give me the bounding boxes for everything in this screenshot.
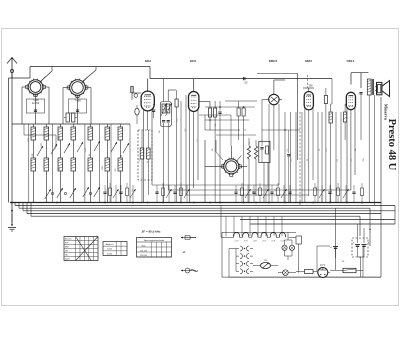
- wire bus 6: [31, 215, 360, 217]
- resistor: [241, 183, 244, 203]
- label CY1: [320, 263, 326, 267]
- trimmer arrow: [319, 185, 325, 203]
- junction: [243, 202, 245, 204]
- coil L6a: [105, 127, 110, 140]
- coil L5b: [88, 158, 93, 171]
- svg-text:12-702: 12-702: [32, 102, 40, 105]
- tube type label CBL1: [346, 59, 354, 63]
- wire bus 7: [240, 219, 395, 221]
- electrolytic block: [352, 224, 370, 277]
- svg-text:EK2: EK2: [145, 59, 151, 63]
- wire T3 pins: [269, 104, 279, 203]
- wire bank mid rail 2: [55, 135, 57, 147]
- ground symbol: [8, 203, 16, 232]
- wire drop: [249, 216, 251, 236]
- label gang2: [74, 100, 81, 103]
- svg-text:x: x: [231, 153, 233, 154]
- wire T4 pins: [305, 108, 313, 203]
- dial lamp 1: [282, 240, 287, 256]
- trimmer arrow gang 3: [236, 156, 242, 162]
- capacitor: [288, 185, 291, 203]
- wire vertical: [301, 112, 303, 203]
- coil L7a: [118, 127, 123, 140]
- wire coil bank bus: [12, 123, 130, 125]
- capacitor on top rail: [244, 77, 248, 85]
- wire T1 top: [147, 79, 149, 92]
- wire bus right fan: [360, 206, 395, 247]
- wire osc leads: [142, 130, 148, 203]
- junction: [180, 202, 182, 204]
- svg-text:CBL1: CBL1: [346, 59, 354, 63]
- trimmer arrow: [166, 185, 172, 203]
- wire bank vertical: [129, 124, 131, 203]
- wire transformer down: [368, 95, 370, 203]
- svg-text:EBC3: EBC3: [269, 59, 278, 63]
- wire top rail left: [30, 66, 150, 68]
- detector cap: [260, 141, 263, 162]
- wire top rail mid: [150, 78, 332, 80]
- capacitor: [234, 185, 237, 203]
- label selector: [264, 260, 268, 262]
- label alt: [183, 251, 186, 254]
- wire right column: [380, 97, 382, 277]
- coil T4: [329, 104, 332, 203]
- coil L6b: [105, 158, 110, 171]
- trimmer arrow: [130, 185, 136, 203]
- resistor: [259, 183, 262, 203]
- wire dashed screen line: [299, 112, 301, 205]
- trimmer arrow gang 1: [40, 77, 46, 84]
- junction: [104, 202, 106, 204]
- wire long mid 2: [168, 189, 351, 191]
- wire lamps top: [285, 232, 293, 260]
- svg-text:6M: 6M: [265, 150, 267, 153]
- switch contact arrow: [94, 141, 100, 151]
- label above T4: [309, 85, 314, 88]
- trimmer arrow: [281, 185, 287, 203]
- wire drum1 loop: [27, 99, 45, 113]
- electrolytic cap 1: [330, 245, 338, 258]
- wire psu top link: [222, 231, 296, 233]
- capacitor detector 2: [287, 130, 290, 203]
- wire coil col 2: [45, 124, 47, 203]
- tuning drum gang 1: [26, 78, 46, 96]
- heater tap label: [281, 241, 285, 243]
- resistor T4 right: [324, 88, 327, 203]
- tube T5 CBL1: [346, 92, 355, 109]
- value labels: [28, 118, 365, 194]
- wire rail right drop: [331, 79, 332, 104]
- svg-text:1M: 1M: [355, 148, 357, 151]
- ground link alt: [181, 268, 198, 273]
- switch contact arrow: [64, 143, 70, 153]
- trimmer arrow: [113, 185, 119, 203]
- wire mid verticals: [181, 95, 186, 203]
- trimmer pair mid: [237, 101, 245, 203]
- wire bank mid rail: [24, 124, 56, 135]
- wire lamp3 leads: [278, 272, 296, 274]
- svg-text:1M: 1M: [212, 148, 214, 151]
- junction: [312, 202, 314, 204]
- resistor T2 anode: [208, 108, 211, 130]
- dial lamp 2: [289, 240, 294, 256]
- wire bus 3: [19, 207, 370, 209]
- wire right column 2: [374, 95, 376, 206]
- svg-text:1M: 1M: [159, 130, 161, 133]
- wire chassis bus main: [10, 202, 381, 204]
- wire selector left: [229, 249, 236, 278]
- brand text Minerva: [384, 104, 389, 121]
- heater tap label: [253, 241, 257, 243]
- trimmer arrow bank: [83, 187, 89, 197]
- trimmer arrow bank: [70, 188, 76, 198]
- capacitor: [155, 185, 158, 203]
- wire psu bottom: [229, 276, 381, 278]
- oscillator coil can: [138, 130, 152, 180]
- wire long mid 1: [152, 184, 279, 186]
- heater tap label: [271, 241, 275, 243]
- resistor: [337, 183, 340, 203]
- wire T3 grid: [262, 100, 266, 142]
- wire drop: [225, 216, 227, 236]
- wire coil col 5: [89, 124, 91, 203]
- wire long mid 3: [186, 194, 309, 196]
- IF1 coil secondary: [167, 104, 170, 113]
- svg-text:MW: MW: [65, 247, 69, 249]
- wire gang2 leads: [63, 88, 91, 125]
- wire vertical: [290, 112, 292, 203]
- oscillator trimmer pair: [64, 113, 77, 122]
- coil L4a: [71, 127, 76, 140]
- switch contact arrow: [51, 144, 57, 154]
- wire T3 top: [274, 80, 285, 92]
- trimmer arrow: [245, 185, 251, 203]
- wire rail shield top: [257, 74, 298, 161]
- coil L3a: [58, 127, 63, 140]
- capacitor: [252, 185, 255, 203]
- svg-text:220-240: 220-240: [140, 255, 147, 257]
- wire mid link c: [205, 119, 249, 121]
- wire gang1 top lead: [41, 67, 53, 82]
- label gang1: [32, 99, 40, 105]
- wire T5 pins: [347, 108, 355, 203]
- cathode resistor T1: [135, 105, 139, 124]
- wire coil col 3: [59, 124, 61, 203]
- switch contact arrow: [123, 143, 129, 153]
- capacitor: [173, 185, 176, 203]
- svg-text:Netz: Netz: [142, 245, 146, 248]
- svg-text:alt: alt: [369, 228, 372, 231]
- table voltages: [137, 238, 172, 258]
- wire bank vertical: [84, 124, 86, 203]
- svg-text:JF = 95,5 kHz: JF = 95,5 kHz: [142, 230, 161, 234]
- wire T2 top: [193, 79, 195, 92]
- voltage selector: [236, 246, 253, 274]
- wire drum2 loop: [69, 99, 87, 113]
- tube type label EBC3: [269, 59, 278, 63]
- wire bank vertical: [110, 124, 112, 203]
- resistor zigzag 1: [247, 138, 250, 203]
- resistor: [361, 183, 364, 203]
- trimmer arrow bank: [57, 188, 63, 198]
- IF transformer 1 can: [160, 102, 171, 127]
- antenna link alt: [181, 236, 196, 239]
- coil L2b: [44, 158, 49, 171]
- wire vertical: [340, 112, 342, 203]
- wire mid link a: [205, 106, 255, 108]
- capacitor T2: [218, 101, 221, 203]
- trimmer arrow bank: [45, 189, 51, 199]
- switch contact arrow: [37, 146, 43, 156]
- wire bus 4: [23, 210, 395, 212]
- junction: [219, 202, 221, 204]
- wire coil col 6: [106, 124, 108, 203]
- svg-text:CY1: CY1: [320, 263, 326, 267]
- resistor R mid: [175, 90, 178, 203]
- wire T2 out: [199, 102, 210, 109]
- svg-text:Presto 48 U: Presto 48 U: [386, 119, 397, 171]
- capacitor output: [359, 93, 362, 141]
- resistor psu hatched: [330, 268, 363, 272]
- wire T1 pins: [144, 110, 153, 202]
- junction: [209, 202, 211, 204]
- pilot lamp 3: [283, 270, 289, 276]
- resistor zigzag 2: [254, 140, 257, 196]
- osc coil b: [147, 148, 151, 159]
- wire bus 5: [27, 213, 381, 215]
- coil L7b: [118, 158, 123, 171]
- svg-text:110-130: 110-130: [140, 251, 147, 253]
- svg-text:KW: KW: [65, 243, 68, 245]
- wire T4 top: [303, 88, 314, 92]
- svg-text:Abgleich: Abgleich: [106, 243, 114, 246]
- junction: [299, 202, 301, 204]
- resistor: [162, 183, 165, 203]
- tube T3 EBC3: [266, 92, 282, 107]
- wire IF1 top: [164, 79, 176, 102]
- heater tap label: [235, 241, 239, 243]
- table wave ranges: [64, 237, 98, 261]
- junction: [284, 202, 286, 204]
- label IF frequency: [142, 230, 161, 234]
- trimmer arrow: [263, 185, 269, 203]
- wire antenna horizontal: [9, 67, 31, 79]
- svg-text:+: +: [330, 245, 332, 249]
- wire rail step: [149, 67, 151, 79]
- svg-text:209: 209: [309, 85, 314, 88]
- svg-text:Sperr: Sperr: [65, 259, 70, 261]
- trimmer arrow: [343, 185, 349, 203]
- wire vertical: [295, 112, 297, 203]
- wire psu right verticals: [336, 208, 364, 277]
- svg-text:alt: alt: [183, 251, 186, 254]
- junction: [346, 202, 348, 204]
- speaker: [375, 81, 390, 97]
- grid resistor T1: [131, 87, 138, 98]
- wire drop: [265, 216, 267, 236]
- junction: [56, 202, 58, 204]
- wire mid link e: [216, 134, 256, 136]
- model title Presto 48 U: [386, 119, 397, 171]
- wire drop: [281, 216, 283, 236]
- capacitor: [270, 185, 273, 203]
- tube T4 EM4: [304, 92, 313, 110]
- wire IF1 down: [164, 123, 169, 203]
- wire mid link d: [262, 129, 300, 131]
- wire T1 grid: [132, 86, 141, 100]
- switch contact arrow: [77, 142, 83, 152]
- junction: [268, 202, 270, 204]
- heater chain: [221, 233, 302, 244]
- tuning drum gang 2: [67, 79, 88, 98]
- wire psu drop 1: [220, 206, 222, 238]
- svg-text:0.580: 0.580: [107, 253, 113, 255]
- wire bus 8: [250, 223, 395, 225]
- tube T1 EK2: [141, 91, 154, 111]
- svg-text:7-408: 7-408: [74, 100, 81, 103]
- wire bank vertical: [28, 124, 30, 203]
- trimmer arrow gang 2: [82, 77, 88, 84]
- junction: [329, 202, 331, 204]
- resistor psu small: [296, 270, 317, 274]
- coil T5 cathode: [344, 104, 347, 140]
- junction: [132, 202, 134, 204]
- junction: [162, 202, 164, 204]
- resistor: [109, 183, 112, 203]
- wire coil col 4: [72, 124, 74, 203]
- tube type label EK2: [145, 59, 151, 63]
- wire mid link b: [199, 115, 231, 146]
- wire output top: [351, 73, 369, 88]
- resistor: [126, 183, 129, 203]
- svg-text:EF9: EF9: [190, 59, 196, 63]
- wire gang2 to rail: [83, 67, 96, 82]
- coil L4b: [71, 158, 76, 171]
- switch point: [64, 192, 66, 194]
- svg-text:EM4: EM4: [305, 59, 312, 63]
- wire vertical: [335, 112, 337, 203]
- wire det leads: [264, 163, 268, 203]
- svg-text:LW: LW: [65, 251, 68, 253]
- capacitor: [352, 185, 355, 203]
- resistor: [277, 183, 280, 203]
- output transformer: [367, 79, 373, 95]
- svg-text:2M: 2M: [215, 123, 217, 126]
- wire bank vertical: [51, 124, 53, 203]
- junction: [11, 202, 13, 204]
- trimmer arrow: [184, 185, 190, 203]
- wire rail avc: [225, 100, 257, 102]
- rectifier CY1: [317, 268, 330, 278]
- junction: [361, 202, 363, 204]
- table alignment: [103, 242, 127, 256]
- wire avc line: [205, 115, 240, 130]
- heater tap label: [262, 241, 266, 243]
- wire gang3 top: [216, 140, 223, 160]
- coil L1b: [31, 158, 36, 171]
- resistor: [180, 183, 183, 203]
- osc coil a: [140, 148, 144, 159]
- switch point: [51, 192, 53, 194]
- capacitor: [119, 185, 122, 203]
- wire gang3 leads: [205, 140, 247, 203]
- wire psu links: [299, 244, 330, 273]
- IF1 trimmer arrows: [161, 103, 172, 116]
- wire vertical: [284, 112, 286, 203]
- svg-text:Spannungsunterschiede: Spannungsunterschiede: [144, 239, 164, 242]
- capacitor T1 coupling: [152, 104, 155, 118]
- wire drop: [257, 216, 259, 236]
- wire drop: [273, 216, 275, 236]
- wire antenna lead: [11, 73, 13, 203]
- coil L3b: [58, 158, 63, 171]
- capacitor: [328, 185, 331, 203]
- tube T2 EF9: [189, 92, 199, 112]
- wire drop: [233, 216, 235, 236]
- wire coil col 7: [119, 124, 121, 203]
- capacitor: [103, 185, 106, 203]
- tube type label EM4: [305, 59, 312, 63]
- junction: [147, 202, 149, 204]
- detector box: [259, 141, 270, 162]
- label psu: [342, 228, 372, 263]
- detector resistor: [266, 146, 269, 154]
- IF1 caps: [162, 121, 170, 122]
- switch point: [89, 192, 91, 194]
- svg-text:1.605: 1.605: [107, 249, 113, 251]
- tuning drum gang 3: [221, 158, 241, 177]
- wire drop: [241, 216, 243, 236]
- wire psu frame left: [222, 232, 229, 277]
- wire screen dashed: [307, 75, 309, 88]
- selector arm: [253, 263, 278, 269]
- tube type label EF9: [190, 59, 196, 63]
- IF1 coil primary: [162, 104, 165, 113]
- wire vertical: [321, 112, 323, 203]
- wire left column: [8, 78, 10, 203]
- wire T2 pins: [190, 110, 199, 203]
- resistor: [314, 183, 317, 203]
- antenna: [7, 57, 17, 78]
- wire bank vertical: [99, 124, 101, 203]
- coil L5a: [88, 127, 93, 140]
- junction: [255, 202, 257, 204]
- junction ground: [11, 210, 13, 212]
- coil L2a: [44, 127, 49, 140]
- wire coil col 1: [32, 124, 34, 203]
- switch contact arrow: [111, 142, 117, 152]
- junction: [193, 202, 195, 204]
- wire bus 2: [15, 205, 395, 207]
- wire bus left fan: [15, 203, 31, 217]
- trimmer arrow bank: [94, 187, 100, 197]
- wire gang1 leads: [22, 87, 49, 124]
- wire vertical: [317, 112, 319, 203]
- svg-text:Bereich: Bereich: [65, 239, 72, 241]
- heater tap label: [244, 241, 248, 243]
- coil L1a: [31, 127, 36, 140]
- resistor T2 screen: [214, 101, 217, 203]
